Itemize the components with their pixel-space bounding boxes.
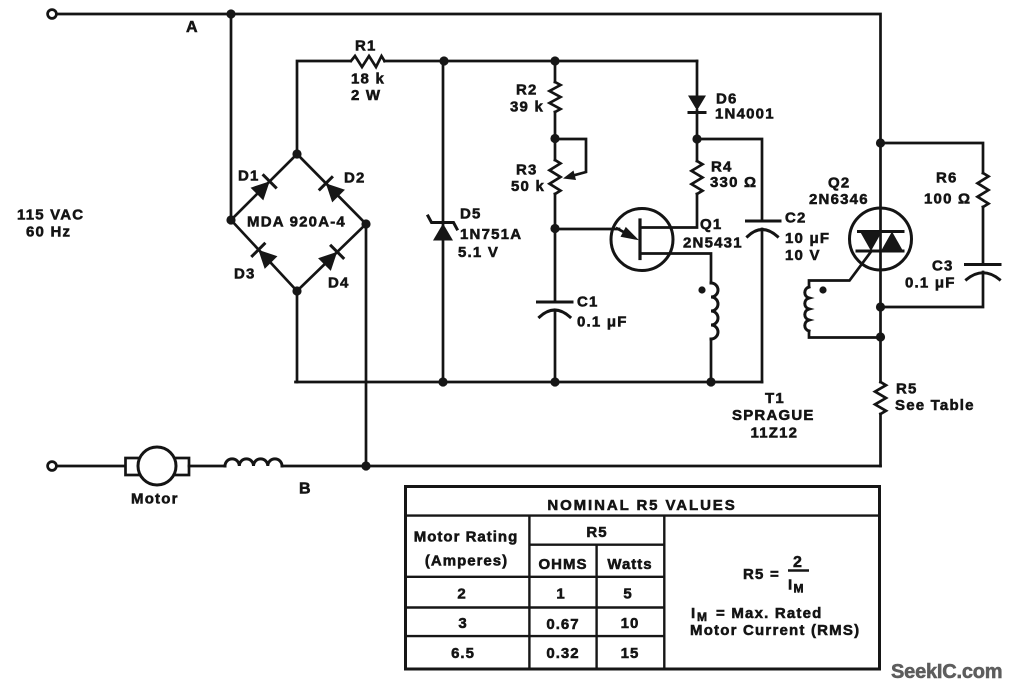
svg-text:2: 2 xyxy=(793,554,803,571)
svg-text:2N5431: 2N5431 xyxy=(683,235,743,252)
svg-text:Motor Rating: Motor Rating xyxy=(414,529,518,546)
svg-text:D3: D3 xyxy=(234,266,256,283)
svg-text:10: 10 xyxy=(621,615,640,632)
svg-text:Watts: Watts xyxy=(607,556,652,573)
svg-text:SPRAGUE: SPRAGUE xyxy=(732,407,815,424)
svg-text:2N6346: 2N6346 xyxy=(809,191,869,208)
svg-text:M: M xyxy=(794,582,805,596)
svg-text:Q2: Q2 xyxy=(828,175,850,192)
svg-text:2 W: 2 W xyxy=(351,87,381,104)
svg-text:10 μF: 10 μF xyxy=(785,230,830,247)
svg-text:B: B xyxy=(299,481,312,498)
svg-text:D4: D4 xyxy=(328,275,350,292)
svg-text:1N4001: 1N4001 xyxy=(715,106,775,123)
svg-text:6.5: 6.5 xyxy=(451,645,475,662)
svg-text:See Table: See Table xyxy=(895,397,975,414)
svg-text:T1: T1 xyxy=(765,390,785,407)
svg-text:D1: D1 xyxy=(238,168,260,185)
svg-text:R3: R3 xyxy=(516,162,538,179)
svg-text:(Amperes): (Amperes) xyxy=(425,553,508,570)
svg-text:D2: D2 xyxy=(344,170,366,187)
svg-text:11Z12: 11Z12 xyxy=(751,425,799,442)
svg-text:5: 5 xyxy=(623,586,632,603)
svg-text:5.1 V: 5.1 V xyxy=(458,244,499,261)
svg-text:1: 1 xyxy=(556,586,565,603)
svg-text:Motor: Motor xyxy=(131,491,179,508)
svg-text:R2: R2 xyxy=(516,82,538,99)
svg-text:R1: R1 xyxy=(355,38,377,55)
svg-text:R4: R4 xyxy=(711,159,733,176)
svg-text:= Max. Rated: = Max. Rated xyxy=(716,605,823,622)
svg-text:SeekIC.com: SeekIC.com xyxy=(891,661,1002,683)
svg-text:115 VAC: 115 VAC xyxy=(17,207,84,224)
svg-text:0.32: 0.32 xyxy=(546,645,579,662)
svg-text:10 V: 10 V xyxy=(785,247,821,264)
svg-text:0.1 μF: 0.1 μF xyxy=(905,275,956,292)
svg-text:60 Hz: 60 Hz xyxy=(26,224,71,241)
svg-text:R6: R6 xyxy=(936,170,958,187)
svg-text:0.1 μF: 0.1 μF xyxy=(577,314,628,331)
svg-text:MDA 920A-4: MDA 920A-4 xyxy=(247,214,346,231)
svg-text:NOMINAL R5 VALUES: NOMINAL R5 VALUES xyxy=(547,497,736,514)
svg-text:D5: D5 xyxy=(460,206,482,223)
svg-text:R5: R5 xyxy=(586,524,607,541)
svg-text:Q1: Q1 xyxy=(700,216,722,233)
svg-text:C2: C2 xyxy=(785,210,807,227)
svg-text:C1: C1 xyxy=(577,294,599,311)
svg-text:15: 15 xyxy=(621,645,640,662)
svg-text:18 k: 18 k xyxy=(351,71,385,88)
svg-text:R5: R5 xyxy=(896,381,918,398)
svg-text:I: I xyxy=(691,605,696,622)
svg-text:330 Ω: 330 Ω xyxy=(710,174,757,191)
svg-text:OHMS: OHMS xyxy=(539,556,588,573)
svg-text:R5 =: R5 = xyxy=(743,566,780,583)
svg-text:A: A xyxy=(186,19,199,36)
svg-text:2: 2 xyxy=(457,586,466,603)
svg-text:0.67: 0.67 xyxy=(546,616,579,633)
svg-text:50 k: 50 k xyxy=(511,178,545,195)
svg-text:1N751A: 1N751A xyxy=(460,226,522,243)
svg-text:C3: C3 xyxy=(932,258,954,275)
svg-text:3: 3 xyxy=(458,615,467,632)
svg-text:Motor Current (RMS): Motor Current (RMS) xyxy=(690,622,860,639)
svg-text:39 k: 39 k xyxy=(510,99,544,116)
svg-text:100 Ω: 100 Ω xyxy=(924,191,971,208)
